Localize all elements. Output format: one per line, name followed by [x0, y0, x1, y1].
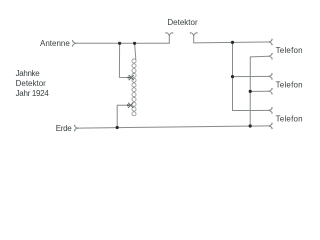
svg-text:Detektor: Detektor — [16, 79, 47, 88]
junction node on top wire (coil feed) — [133, 42, 136, 45]
terminal fork telefon2 bottom (opens right) — [269, 88, 273, 94]
junction node top wire / bus A — [231, 41, 234, 44]
wire telefon2 bottom row — [250, 90, 268, 92]
svg-text:Jahr 1924: Jahr 1924 — [16, 89, 50, 98]
terminal fork telefon1 bottom (opens right) — [269, 53, 273, 59]
svg-text:Telefon: Telefon — [276, 46, 303, 55]
inductor L1 (tapped coil, 12 loops) — [132, 59, 136, 116]
wire antenna top horizontal — [76, 42, 169, 44]
wire telefon2 top row — [233, 75, 269, 77]
terminal fork antenna (opens left) — [72, 40, 76, 46]
wire top right horizontal — [194, 41, 269, 44]
junction node on top wire (tap branch) — [118, 42, 121, 45]
terminal fork detector right (opens up) — [190, 33, 197, 36]
wire bus B vertical — [250, 56, 268, 126]
terminal fork telefon3 bottom (opens right) — [269, 123, 273, 129]
wire coil upper tap branch — [119, 43, 129, 77]
svg-text:Detektor: Detektor — [167, 18, 198, 27]
wire detector left stem — [168, 36, 170, 44]
svg-text:Erde: Erde — [56, 124, 73, 133]
junction node erde / tap branch — [116, 126, 119, 129]
terminal fork telefon2 top (opens right) — [269, 74, 273, 80]
terminal fork detector left (opens up) — [166, 33, 173, 36]
svg-text:Telefon: Telefon — [276, 80, 303, 89]
junction node bus B / telefon2 — [249, 90, 252, 93]
terminal fork telefon1 top (opens right) — [269, 39, 273, 45]
wire coil lower tap branch — [117, 105, 128, 127]
junction node erde / bus B — [249, 124, 252, 127]
svg-text:Telefon: Telefon — [276, 115, 303, 124]
wire coil feed from antenna — [135, 43, 136, 59]
terminal fork erde (opens left) — [74, 125, 78, 131]
junction node bus A / telefon2 — [231, 75, 234, 78]
lower tap arrow into coil — [127, 103, 133, 108]
svg-text:Jahnke: Jahnke — [16, 69, 41, 78]
wire erde horizontal — [78, 126, 268, 128]
terminal fork telefon3 top (opens right) — [269, 108, 273, 114]
upper tap arrow into coil — [128, 75, 134, 80]
svg-text:Antenne: Antenne — [40, 39, 70, 48]
wire detector right stem — [193, 36, 195, 43]
wire bus A vertical — [233, 42, 269, 110]
